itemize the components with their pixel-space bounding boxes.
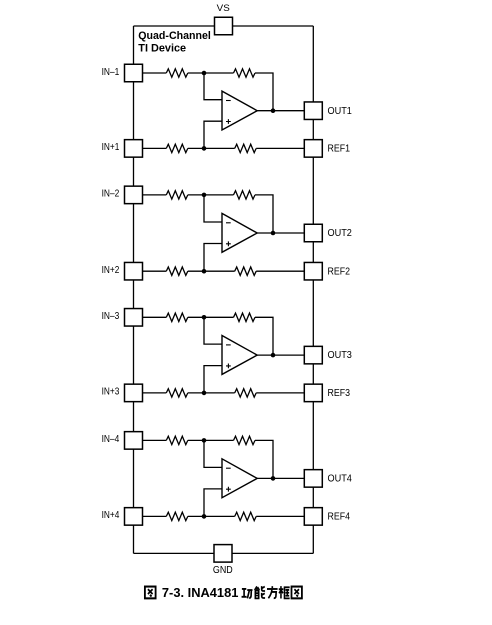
svg-text:OUT4: OUT4: [328, 474, 353, 485]
pin REF1: [304, 140, 322, 158]
wire top edge (VS rail): [134, 25, 314, 27]
svg-text:IN+2: IN+2: [102, 265, 120, 276]
resistor feedback R ch2: [234, 191, 256, 199]
op-amp A3 inverting input marker: [226, 344, 231, 346]
wire feedback down to output node ch4: [255, 440, 273, 478]
junction dot non-inverting node ch2: [202, 269, 207, 274]
resistor input R (IN+1 to non-inverting node): [166, 144, 188, 152]
wire IN+3 row: pin to input resistor: [143, 392, 167, 394]
junction dot output/feedback node ch2: [271, 231, 276, 236]
svg-text:OUT2: OUT2: [328, 228, 353, 239]
svg-text:OUT1: OUT1: [328, 106, 353, 117]
junction dot non-inverting node ch4: [202, 514, 207, 519]
wire op-amp output to OUT2 pin: [257, 232, 304, 234]
op-amp A4 non-inverting input marker: [226, 487, 231, 492]
wire feedback down to output node ch2: [255, 195, 273, 233]
wire REF resistor to REF2 pin: [256, 270, 304, 272]
wire feedback down to output node ch3: [255, 317, 273, 355]
svg-text:REF3: REF3: [328, 388, 351, 399]
junction dot inverting node ch3: [202, 315, 207, 320]
op-amp A4 inverting input marker: [226, 467, 231, 469]
svg-text:GND: GND: [213, 565, 233, 576]
wire non-inverting input stub ch4: [204, 489, 222, 517]
wire non-inverting node to REF resistor ch4: [188, 515, 235, 517]
resistor input R (IN–2 to inverting node): [166, 191, 188, 199]
resistor input R (IN–4 to inverting node): [166, 436, 188, 444]
op-amp A1 inverting input marker: [226, 100, 231, 102]
wire non-inverting input stub ch2: [204, 244, 222, 272]
junction dot non-inverting node ch3: [202, 391, 207, 396]
svg-text:7-3. INA4181: 7-3. INA4181: [162, 585, 239, 600]
resistor feedback R ch4: [234, 436, 256, 444]
pin IN+3: [125, 384, 143, 402]
wire inverting node to feedback resistor ch3: [188, 316, 234, 318]
pin IN+2: [125, 262, 143, 280]
wire non-inverting input stub ch1: [204, 121, 222, 148]
wire inverting input stub ch4: [204, 440, 222, 467]
svg-text:VS: VS: [217, 3, 230, 14]
junction dot output/feedback node ch4: [271, 476, 276, 481]
wire bottom edge (GND rail): [134, 552, 314, 554]
caption CJK glyph 功: [242, 589, 253, 598]
wire IN+4 row: pin to input resistor: [143, 515, 167, 517]
resistor REF R ch3: [235, 389, 257, 397]
op-amp A1 non-inverting input marker: [226, 119, 231, 124]
caption CJK glyph 图: [291, 587, 301, 599]
caption CJK glyph 框: [279, 586, 290, 598]
op-amp A3: [222, 336, 257, 375]
svg-text:REF2: REF2: [328, 266, 351, 277]
wire REF resistor to REF1 pin: [256, 147, 304, 149]
resistor input R (IN+3 to non-inverting node): [166, 389, 188, 397]
resistor REF R ch2: [235, 267, 257, 275]
wire REF resistor to REF4 pin: [256, 515, 304, 517]
resistor input R (IN+4 to non-inverting node): [166, 512, 188, 520]
caption CJK glyph 能: [255, 586, 265, 598]
wire REF resistor to REF3 pin: [256, 392, 304, 394]
resistor feedback R ch1: [234, 69, 256, 77]
wire inverting node to feedback resistor ch2: [188, 194, 234, 196]
caption CJK glyph 图 (figure): [145, 587, 156, 599]
pin REF4: [304, 508, 322, 526]
pin REF2: [304, 262, 322, 280]
svg-text:OUT3: OUT3: [328, 350, 353, 361]
pin IN+1: [125, 140, 143, 158]
pin OUT3: [304, 346, 322, 364]
wire op-amp output to OUT3 pin: [257, 354, 304, 356]
wire IN–3 row: pin to input resistor: [143, 316, 167, 318]
svg-text:IN+3: IN+3: [102, 387, 120, 398]
op-amp A3 non-inverting input marker: [226, 364, 231, 369]
op-amp A2: [222, 213, 257, 252]
junction dot output/feedback node ch1: [271, 108, 276, 113]
op-amp A1: [222, 91, 257, 130]
junction dot inverting node ch2: [202, 193, 207, 198]
svg-text:Quad-Channel: Quad-Channel: [138, 30, 211, 42]
wire inverting input stub ch3: [204, 317, 222, 344]
wire inverting node to feedback resistor ch4: [188, 439, 234, 441]
wire IN–4 row: pin to input resistor: [143, 439, 167, 441]
wire IN–1 row: pin to input resistor: [143, 72, 167, 74]
wire inverting node to feedback resistor ch1: [188, 72, 234, 74]
wire inverting input stub ch1: [204, 73, 222, 100]
resistor input R (IN+2 to non-inverting node): [166, 267, 188, 275]
resistor input R (IN–1 to inverting node): [166, 69, 188, 77]
pin OUT1: [304, 102, 322, 120]
caption: figure number and title: [145, 585, 302, 600]
resistor REF R ch1: [235, 144, 257, 152]
junction dot non-inverting node ch1: [202, 146, 207, 151]
resistor REF R ch4: [235, 512, 257, 520]
wire feedback down to output node ch1: [255, 73, 273, 111]
pin OUT4: [304, 470, 322, 488]
svg-text:IN–3: IN–3: [102, 311, 120, 322]
pin IN–3: [125, 309, 143, 327]
op-amp A2 inverting input marker: [226, 222, 231, 224]
wire IN+2 row: pin to input resistor: [143, 270, 167, 272]
pin VS: [215, 17, 233, 35]
wire non-inverting input stub ch3: [204, 366, 222, 393]
svg-text:IN+4: IN+4: [102, 510, 120, 521]
pin IN–2: [125, 186, 143, 204]
svg-text:IN–4: IN–4: [102, 434, 120, 445]
wire IN+1 row: pin to input resistor: [143, 147, 167, 149]
pin GND: [214, 545, 232, 563]
resistor input R (IN–3 to inverting node): [166, 313, 188, 321]
pin IN+4: [125, 508, 143, 526]
svg-text:REF4: REF4: [328, 512, 351, 523]
pin OUT2: [304, 224, 322, 242]
junction dot inverting node ch1: [202, 71, 207, 76]
resistor feedback R ch3: [234, 313, 256, 321]
wire left input bus (device left edge): [133, 26, 135, 553]
wire IN–2 row: pin to input resistor: [143, 194, 167, 196]
svg-text:TI Device: TI Device: [138, 43, 186, 55]
pin IN–1: [125, 64, 143, 82]
pin REF3: [304, 384, 322, 402]
wire non-inverting node to REF resistor ch2: [188, 270, 235, 272]
wire inverting input stub ch2: [204, 195, 222, 222]
wire non-inverting node to REF resistor ch3: [188, 392, 235, 394]
wire op-amp output to OUT4 pin: [257, 477, 304, 479]
op-amp A4: [222, 459, 257, 498]
pin IN–4: [125, 432, 143, 450]
junction dot inverting node ch4: [202, 438, 207, 443]
label Quad-Channel TI Device: [138, 30, 211, 55]
wire non-inverting node to REF resistor ch1: [188, 147, 235, 149]
svg-text:IN–2: IN–2: [102, 189, 120, 200]
wire op-amp output to OUT1 pin: [257, 110, 304, 112]
wire right output bus (device right edge): [312, 26, 314, 553]
caption CJK glyph 方: [267, 586, 278, 598]
op-amp A2 non-inverting input marker: [226, 241, 231, 246]
junction dot output/feedback node ch3: [271, 353, 276, 358]
svg-text:IN–1: IN–1: [102, 67, 120, 78]
svg-text:REF1: REF1: [328, 144, 351, 155]
svg-text:IN+1: IN+1: [102, 142, 120, 153]
